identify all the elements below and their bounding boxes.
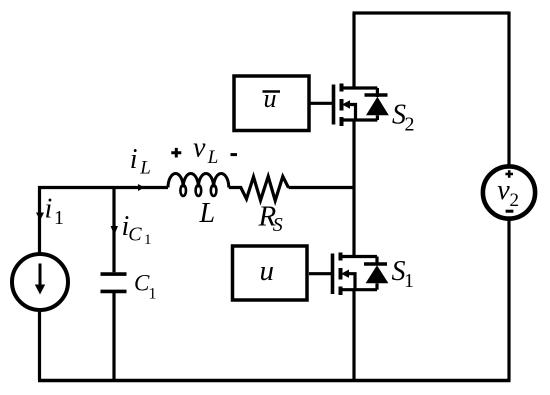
- svg-text:L: L: [139, 158, 151, 179]
- wire gate lead S2: [311, 102, 334, 105]
- wire middle column mid (S2 source to S1 drain): [352, 120, 355, 257]
- wire capacitor branch upper: [112, 186, 115, 272]
- wire middle column top (to S2 drain): [352, 13, 355, 88]
- wire right column below v2: [507, 219, 510, 381]
- svg-text:C: C: [128, 224, 142, 246]
- svg-text:u: u: [260, 255, 275, 287]
- current source i1: [12, 254, 68, 310]
- svg-text:u: u: [264, 84, 277, 113]
- wire resistor to middle column: [289, 186, 356, 189]
- wire top (drain S2 to v2 top): [353, 11, 510, 14]
- svg-text:v: v: [497, 175, 510, 206]
- capacitor C1: [101, 272, 127, 276]
- svg-text:L: L: [199, 198, 216, 229]
- wire gate lead S1: [309, 272, 333, 275]
- wire bottom rail: [38, 379, 511, 382]
- svg-text:S: S: [273, 214, 283, 236]
- svg-text:1: 1: [144, 232, 152, 248]
- inductor L: [168, 173, 229, 187]
- svg-text:i: i: [130, 144, 138, 175]
- transistor S2: [334, 84, 389, 127]
- svg-text:i: i: [45, 194, 53, 225]
- svg-text:v: v: [193, 133, 206, 164]
- svg-text:1: 1: [404, 270, 414, 292]
- resistor RS: [229, 177, 289, 201]
- svg-text:L: L: [207, 147, 219, 168]
- wire capacitor branch lower: [112, 293, 115, 381]
- voltage source v2: [483, 166, 535, 218]
- label minus sign: [231, 153, 238, 156]
- svg-text:1: 1: [149, 286, 157, 303]
- svg-text:2: 2: [405, 114, 415, 136]
- plus mark: [505, 170, 513, 178]
- wire left column below current source: [38, 312, 41, 381]
- gate drive box u-bar: [234, 76, 309, 131]
- wire right column above v2: [507, 12, 510, 167]
- label +vL- plus sign: [171, 148, 181, 158]
- transistor S1: [333, 253, 389, 296]
- arrow i1 on left wire: [36, 213, 44, 221]
- svg-text:2: 2: [510, 190, 520, 211]
- wire main horizontal left (to inductor): [38, 186, 168, 189]
- wire left column above current source: [38, 186, 41, 254]
- svg-text:1: 1: [54, 207, 64, 229]
- gate drive box u: [233, 246, 308, 300]
- arrow iL on main wire: [138, 184, 145, 191]
- minus mark: [506, 210, 514, 213]
- wire middle column bottom (S1 source to bottom rail): [352, 290, 355, 381]
- arrow iC1 on capacitor branch: [111, 226, 119, 235]
